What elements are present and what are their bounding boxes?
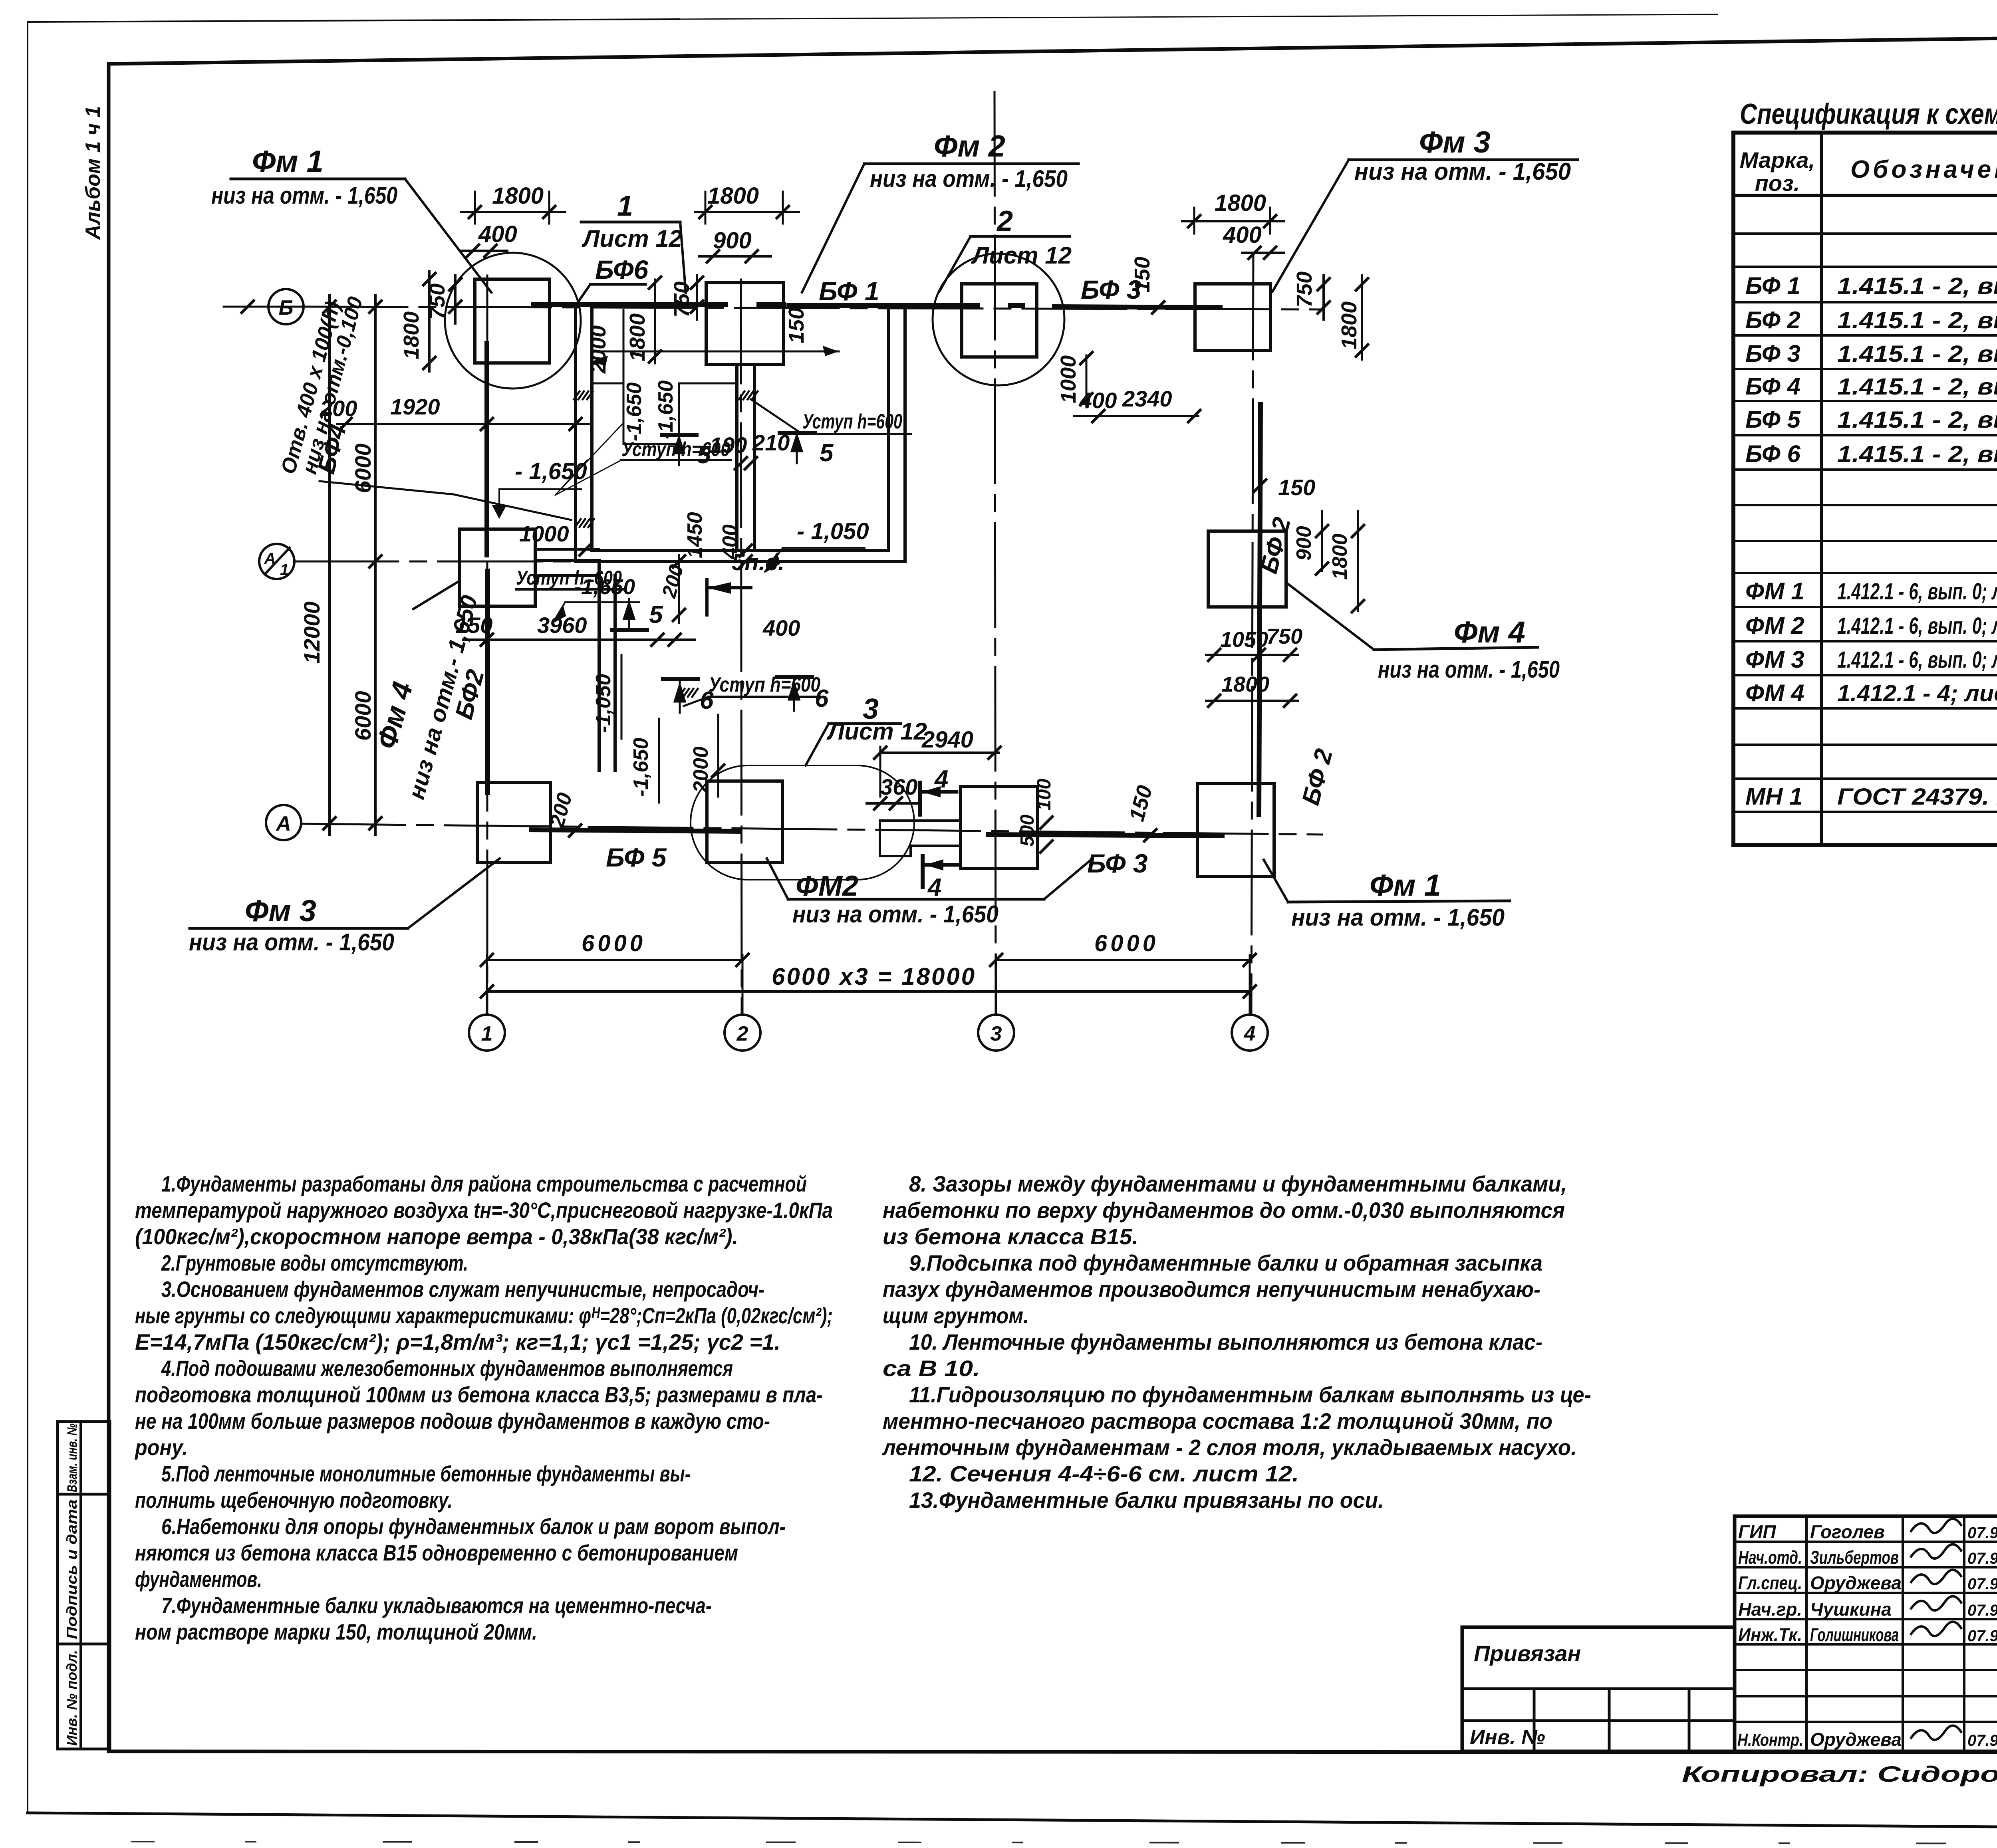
svg-text:900: 900 xyxy=(1292,526,1316,561)
svg-text:07.91: 07.91 xyxy=(1967,1550,1997,1567)
svg-text:низ на отм. - 1,650: низ на отм. - 1,650 xyxy=(1291,904,1505,931)
svg-text:150: 150 xyxy=(784,307,808,343)
svg-text:А: А xyxy=(275,812,291,835)
svg-text:ФМ 3: ФМ 3 xyxy=(1745,646,1804,673)
foundation block ФМ3 at Б/4 xyxy=(1195,284,1270,351)
axis column circle 4 xyxy=(1232,1015,1268,1051)
svg-text:БФ 3: БФ 3 xyxy=(1087,849,1148,878)
ticks on axis Б extension xyxy=(224,306,304,308)
svg-text:1: 1 xyxy=(280,561,289,579)
svg-text:низ на отм. - 1,650: низ на отм. - 1,650 xyxy=(792,901,998,928)
svg-text:температурой наружного воздуха: температурой наружного воздуха tн=-30°С,… xyxy=(135,1198,833,1223)
svg-text:Лист 12: Лист 12 xyxy=(582,225,682,252)
axis row А line xyxy=(301,824,1322,835)
svg-text:2: 2 xyxy=(736,1022,748,1045)
svg-text:поз.: поз. xyxy=(1755,171,1800,196)
svg-text:Уступ h=600: Уступ h=600 xyxy=(709,673,820,696)
svg-text:4: 4 xyxy=(927,874,941,901)
svg-text:подготовка толщиной 100мм из б: подготовка толщиной 100мм из бетона клас… xyxy=(135,1382,823,1407)
svg-text:1.415.1 - 2, вып. 1: 1.415.1 - 2, вып. 1 xyxy=(1837,441,1997,467)
svg-text:150: 150 xyxy=(1130,257,1154,293)
drawing frame left edge xyxy=(107,64,111,1751)
svg-text:Подпись и дата: Подпись и дата xyxy=(64,1499,80,1639)
svg-text:Спецификация к схеме распол: Спецификация к схеме расположения элемен… xyxy=(1740,98,1997,130)
svg-text:1000: 1000 xyxy=(519,521,569,546)
svg-text:1800: 1800 xyxy=(399,311,423,359)
svg-text:11.Гидроизоляцию по фундаментн: 11.Гидроизоляцию по фундаментным балкам … xyxy=(909,1382,1591,1407)
svg-text:1: 1 xyxy=(481,1022,493,1045)
svg-text:Уступ h=600: Уступ h=600 xyxy=(516,567,622,589)
beam БФ6 span Б:1-2 xyxy=(533,302,726,307)
svg-text:Гоголев: Гоголев xyxy=(1810,1521,1885,1542)
svg-text:4: 4 xyxy=(934,765,948,793)
foundation block ФМ3 at А/1 xyxy=(477,783,550,863)
foundation block at А/3 xyxy=(961,787,1038,868)
svg-text:не на 100мм больше размеров по: не на 100мм больше размеров подошв фунда… xyxy=(135,1408,770,1434)
svg-text:Инв. № подл.: Инв. № подл. xyxy=(64,1650,80,1746)
svg-text:1800: 1800 xyxy=(492,183,544,209)
strip foundation outer wall right xyxy=(903,307,907,561)
svg-text:1050: 1050 xyxy=(1220,628,1268,652)
flag 5пс xyxy=(705,580,709,615)
axis column 4 line xyxy=(1251,256,1253,1014)
svg-text:3.Основанием фундаментов служа: 3.Основанием фундаментов служат непучини… xyxy=(161,1277,764,1302)
svg-text:5: 5 xyxy=(820,439,834,467)
svg-text:низ на отм. - 1,650: низ на отм. - 1,650 xyxy=(211,182,397,209)
svg-text:ФМ 1: ФМ 1 xyxy=(1745,578,1804,605)
svg-text:4.Под подошвами железобетонных: 4.Под подошвами железобетонных фундамент… xyxy=(161,1356,733,1381)
svg-text:Гл.спец.: Гл.спец. xyxy=(1738,1572,1802,1593)
svg-text:Инж.Тк.: Инж.Тк. xyxy=(1738,1624,1802,1645)
svg-text:низ на отм. - 1,650: низ на отм. - 1,650 xyxy=(1354,158,1571,185)
svg-text:-1,650: -1,650 xyxy=(654,380,677,439)
svg-text:2.Грунтовые воды отсутствуют.: 2.Грунтовые воды отсутствуют. xyxy=(161,1250,468,1275)
beam БФ5 span А:1-2 xyxy=(531,830,740,831)
section mark 5 left xyxy=(662,433,697,437)
section mark 6 upper xyxy=(663,677,698,681)
foundation block ФМ2 at А/2 xyxy=(707,781,782,863)
svg-text:Н.Контр.: Н.Контр. xyxy=(1737,1730,1803,1750)
svg-text:Инв. №: Инв. № xyxy=(1470,1726,1545,1749)
drawing frame top edge xyxy=(109,31,1997,64)
foundation block ФМ2 at Б/2 xyxy=(706,283,784,365)
svg-text:пазух фундаментов производится: пазух фундаментов производится непучинис… xyxy=(883,1277,1540,1302)
drawing frame bottom edge xyxy=(109,1751,1997,1753)
svg-text:ГОСТ 24379. 1 - 80: ГОСТ 24379. 1 - 80 xyxy=(1837,784,1997,810)
axis column 1 line xyxy=(486,276,488,1014)
svg-text:Фм 3: Фм 3 xyxy=(1419,125,1491,159)
svg-text:2: 2 xyxy=(996,205,1013,237)
svg-text:1.412.1 - 6, вып. 0; лист 13: 1.412.1 - 6, вып. 0; лист 13 xyxy=(1837,613,1997,639)
svg-text:полнить щебеночную подготовку.: полнить щебеночную подготовку. xyxy=(135,1487,453,1513)
svg-text:750: 750 xyxy=(1292,272,1316,307)
hatch mark left step xyxy=(574,391,580,399)
svg-text:6000: 6000 xyxy=(350,691,375,741)
svg-text:БФ 2: БФ 2 xyxy=(1745,307,1800,333)
axis column 3 line xyxy=(995,92,996,1014)
svg-text:Б: Б xyxy=(279,296,294,319)
svg-text:А: А xyxy=(264,550,276,567)
svg-text:9.Подсыпка под фундаментные ба: 9.Подсыпка под фундаментные балки и обра… xyxy=(909,1250,1542,1275)
svg-text:1800: 1800 xyxy=(625,313,649,361)
signature table grid xyxy=(1735,1541,1997,1543)
svg-text:2340: 2340 xyxy=(1122,386,1172,411)
axis row Б line xyxy=(304,307,1322,309)
svg-text:(100кгс/м²),скоростном напоре: (100кгс/м²),скоростном напоре ветра - 0,… xyxy=(135,1224,738,1249)
section mark 5 right xyxy=(780,431,815,435)
scan paper edge left xyxy=(27,22,28,1813)
svg-text:1.Фундаменты разработаны для р: 1.Фундаменты разработаны для района стро… xyxy=(161,1171,807,1196)
svg-text:щим грунтом.: щим грунтом. xyxy=(883,1303,1029,1328)
beam БФ2 vertical at column1 xyxy=(484,343,489,555)
strip foundation middle wall pair xyxy=(735,365,738,551)
foundation block ФМ1 at А/4 xyxy=(1197,783,1274,876)
svg-text:ные грунты со следующими харак: ные грунты со следующими характеристикам… xyxy=(135,1303,833,1328)
strip foundation inner wall left xyxy=(590,310,594,551)
svg-text:1800: 1800 xyxy=(707,183,759,209)
svg-text:БФ 1: БФ 1 xyxy=(819,276,879,306)
svg-text:400: 400 xyxy=(478,221,517,247)
svg-text:1000: 1000 xyxy=(1056,355,1080,403)
svg-text:1.415.1 - 2, вып. 1: 1.415.1 - 2, вып. 1 xyxy=(1837,407,1997,433)
svg-text:низ на отм. - 1,650: низ на отм. - 1,650 xyxy=(1378,656,1560,683)
svg-text:ленточным фундаментам - 2 слоя: ленточным фундаментам - 2 слоя толя, укл… xyxy=(881,1435,1577,1460)
axis column circle 1 xyxy=(469,1015,505,1051)
svg-text:-1,650: -1,650 xyxy=(623,382,646,441)
svg-text:ном растворе марки 150, толщин: ном растворе марки 150, толщиной 20мм. xyxy=(135,1619,537,1644)
svg-text:БФ 1: БФ 1 xyxy=(1745,272,1800,299)
detail circle at Б/1 xyxy=(445,253,581,389)
svg-text:Альбом 1 ч 1: Альбом 1 ч 1 xyxy=(81,106,105,240)
svg-text:ГИП: ГИП xyxy=(1738,1521,1776,1542)
detail circle at Б/3 xyxy=(933,254,1064,385)
svg-text:2000: 2000 xyxy=(689,746,713,793)
strip foundation inner wall right xyxy=(887,307,890,551)
svg-text:360: 360 xyxy=(880,774,917,799)
beam stub in block Б/2 xyxy=(759,302,784,307)
axis column circle 2 xyxy=(725,1015,760,1051)
svg-text:500: 500 xyxy=(1017,815,1038,847)
svg-text:5: 5 xyxy=(697,441,711,469)
svg-text:БФ 3: БФ 3 xyxy=(1745,340,1800,367)
dim 2000 arrow right chamber xyxy=(592,351,839,353)
svg-text:Взам. инв. №: Взам. инв. № xyxy=(65,1424,80,1492)
svg-text:Уступ h=600: Уступ h=600 xyxy=(802,410,902,433)
svg-text:5.Под ленточные монолитные бет: 5.Под ленточные монолитные бетонные фунд… xyxy=(161,1461,691,1486)
svg-text:Фм 3: Фм 3 xyxy=(245,894,316,928)
svg-text:5п.с.: 5п.с. xyxy=(732,549,784,575)
foundation block ФМ1 at Б/1 xyxy=(475,279,550,363)
foundation block ФМ4 at А1/1 xyxy=(459,529,535,606)
svg-text:6000 х3 = 18000: 6000 х3 = 18000 xyxy=(772,963,976,990)
svg-text:150: 150 xyxy=(1278,475,1315,500)
strip foundation outer wall left xyxy=(574,310,577,561)
spec table grid xyxy=(1733,133,1997,845)
vertical extension lines to circles xyxy=(486,955,488,1015)
svg-text:Фм 1: Фм 1 xyxy=(1370,868,1441,902)
svg-text:1450: 1450 xyxy=(683,512,707,558)
hatch mark near wing xyxy=(679,689,685,697)
svg-text:-1,650: -1,650 xyxy=(629,738,653,797)
svg-text:10. Ленточные фундаменты выпол: 10. Ленточные фундаменты выполняются из … xyxy=(909,1329,1542,1354)
svg-text:8. Зазоры между фундаментами: 8. Зазоры между фундаментами и фундамент… xyxy=(909,1171,1567,1196)
foundation block at Б/3 xyxy=(962,284,1037,357)
svg-text:-1,050: -1,050 xyxy=(592,674,615,733)
svg-text:1.415.1 - 2, вып. 1: 1.415.1 - 2, вып. 1 xyxy=(1837,374,1997,400)
svg-text:1: 1 xyxy=(617,190,633,222)
svg-text:1800: 1800 xyxy=(1215,190,1266,216)
svg-text:няются из бетона класса В15 од: няются из бетона класса В15 одновременно… xyxy=(135,1540,738,1565)
svg-text:1.412.1 - 4; лист 14: 1.412.1 - 4; лист 14 xyxy=(1837,680,1997,706)
dim arrow 2000 left xyxy=(592,356,608,366)
svg-text:Чушкина: Чушкина xyxy=(1810,1599,1892,1620)
section mark 6 right xyxy=(777,675,812,679)
svg-text:Фм 4: Фм 4 xyxy=(1454,615,1525,649)
svg-text:БФ 4: БФ 4 xyxy=(1745,373,1800,400)
svg-text:07.91: 07.91 xyxy=(1967,1732,1997,1749)
svg-text:Привязан: Привязан xyxy=(1474,1641,1581,1666)
beam БФ3 span Б:3-4 xyxy=(1054,307,1220,307)
svg-text:низ на отм. - 1,650: низ на отм. - 1,650 xyxy=(870,165,1068,192)
notched monolithic block xyxy=(880,821,961,856)
hatch mark right step xyxy=(739,391,744,399)
svg-text:12. Сечения 4-4÷6-6 см. лист 1: 12. Сечения 4-4÷6-6 см. лист 12. xyxy=(909,1461,1299,1486)
beam БФ2 vertical at column4 xyxy=(1259,404,1261,815)
section mark 4 upper xyxy=(918,783,922,815)
svg-text:- 1,050: - 1,050 xyxy=(797,518,869,544)
svg-text:400: 400 xyxy=(1079,388,1117,413)
svg-text:Оруджева: Оруджева xyxy=(1810,1729,1902,1750)
axis row Б circle xyxy=(268,289,304,324)
pit step contour left chamber xyxy=(592,310,737,444)
svg-text:МН 1: МН 1 xyxy=(1745,783,1802,810)
svg-text:из бетона класса В15.: из бетона класса В15. xyxy=(883,1224,1138,1249)
svg-text:1.412.1 - 6, вып. 0; лист 13: 1.412.1 - 6, вып. 0; лист 13 xyxy=(1837,579,1997,605)
svg-text:фундаментов.: фундаментов. xyxy=(135,1566,262,1592)
svg-text:Копировал: Сидорова: Копировал: Сидорова xyxy=(1682,1761,1997,1787)
svg-text:6000: 6000 xyxy=(582,930,646,956)
leader to hatch xyxy=(320,481,453,494)
svg-text:100: 100 xyxy=(1034,779,1055,811)
svg-text:1800: 1800 xyxy=(1328,533,1352,580)
svg-text:12000: 12000 xyxy=(299,601,324,664)
section flag 5 lower xyxy=(612,628,647,632)
oval detail boundary ФМ2 xyxy=(691,765,914,880)
svg-text:Нач.отд.: Нач.отд. xyxy=(1738,1547,1802,1568)
left margin column boxes xyxy=(58,1422,110,1749)
svg-text:Нач.гр.: Нач.гр. xyxy=(1738,1599,1802,1620)
svg-text:400: 400 xyxy=(762,615,800,640)
scan paper edge top xyxy=(28,19,679,22)
svg-text:Голишникова: Голишникова xyxy=(1810,1624,1899,1645)
svg-text:1.415.1 - 2, вып. 1: 1.415.1 - 2, вып. 1 xyxy=(1837,273,1997,299)
axis column circle 3 xyxy=(978,1015,1014,1051)
svg-text:БФ 5: БФ 5 xyxy=(606,843,667,872)
section mark 4 lower xyxy=(921,856,925,887)
svg-text:1800: 1800 xyxy=(1337,301,1361,349)
svg-text:БФ 5: БФ 5 xyxy=(1745,406,1801,433)
svg-text:1.415.1 - 2, вып. 1: 1.415.1 - 2, вып. 1 xyxy=(1837,307,1997,333)
svg-text:Марка,: Марка, xyxy=(1740,147,1815,173)
svg-text:07.91: 07.91 xyxy=(1967,1575,1997,1593)
svg-text:4: 4 xyxy=(1244,1022,1256,1045)
svg-text:набетонки по верху фундаментов: набетонки по верху фундаментов до отм.-0… xyxy=(883,1198,1565,1223)
svg-text:Зильбертов: Зильбертов xyxy=(1810,1547,1899,1568)
title block outline xyxy=(1735,1516,1997,1751)
beam stub in block Б/3 xyxy=(1010,303,1022,308)
svg-text:3: 3 xyxy=(991,1022,1002,1045)
beam БФ2 vertical lower at column1 xyxy=(485,571,490,793)
axis row А/1 line xyxy=(294,561,617,563)
svg-text:БФ 6: БФ 6 xyxy=(1745,440,1800,467)
svg-text:1800: 1800 xyxy=(1221,672,1269,696)
strip wing below block А1/1 xyxy=(535,559,599,562)
svg-text:рону.: рону. xyxy=(134,1435,188,1460)
svg-text:13.Фундаментные балки привязан: 13.Фундаментные балки привязаны по оси. xyxy=(909,1487,1384,1513)
svg-text:6000: 6000 xyxy=(1094,930,1159,956)
svg-text:Лист 12: Лист 12 xyxy=(971,242,1072,269)
svg-text:07.91: 07.91 xyxy=(1967,1524,1997,1542)
svg-text:400: 400 xyxy=(1223,222,1262,248)
svg-text:ФМ2: ФМ2 xyxy=(796,870,858,902)
strip foundation bottom inner xyxy=(592,549,889,552)
axis row А circle xyxy=(266,805,301,840)
foundation block ФМ4 at А1/4 xyxy=(1208,531,1286,607)
svg-text:Обозначение: Обозначение xyxy=(1850,156,1997,183)
svg-text:6.Набетонки для опоры фундамен: 6.Набетонки для опоры фундаментных балок… xyxy=(161,1514,786,1539)
axis column 2 line xyxy=(741,280,742,1014)
svg-text:БФ6: БФ6 xyxy=(595,255,649,284)
svg-text:ФМ 4: ФМ 4 xyxy=(1745,680,1804,706)
svg-text:5: 5 xyxy=(649,601,663,629)
svg-text:1.415.1 - 2, вып. 1: 1.415.1 - 2, вып. 1 xyxy=(1837,341,1997,367)
svg-text:1920: 1920 xyxy=(390,394,440,419)
beam БФ3 span А:3-4 xyxy=(989,835,1222,836)
svg-text:750: 750 xyxy=(1266,625,1302,648)
svg-text:Лист 12: Лист 12 xyxy=(826,718,927,745)
hatch mark bottom left xyxy=(575,519,581,527)
svg-text:Фм 1: Фм 1 xyxy=(252,145,324,178)
axis row А/1 circle xyxy=(259,544,294,579)
scan paper edge bottom xyxy=(28,1813,1997,1831)
svg-text:07.91: 07.91 xyxy=(1967,1602,1997,1619)
strip foundation bottom outer xyxy=(576,560,905,563)
svg-text:2940: 2940 xyxy=(921,727,973,753)
stamp attachment table left xyxy=(1462,1627,1735,1751)
svg-text:ментно-песчаного раствора сост: ментно-песчаного раствора состава 1:2 то… xyxy=(883,1408,1552,1434)
strip vertical pair to oval xyxy=(598,561,601,771)
beam БФ1 span Б:2-3 xyxy=(789,303,978,308)
svg-text:Фм 2: Фм 2 xyxy=(934,129,1005,163)
scan bottom dashes xyxy=(132,1842,1997,1844)
svg-text:са В 10.: са В 10. xyxy=(883,1356,980,1381)
svg-text:низ на отм. - 1,650: низ на отм. - 1,650 xyxy=(189,929,394,956)
svg-text:ФМ 2: ФМ 2 xyxy=(1745,612,1804,639)
svg-text:Е=14,7мПа (150кгс/см²); ρ=1,8т: Е=14,7мПа (150кгс/см²); ρ=1,8т/м³; кг=1,… xyxy=(135,1329,780,1354)
svg-text:1.412.1 - 6, вып. 0; лист 13: 1.412.1 - 6, вып. 0; лист 13 xyxy=(1837,647,1997,673)
svg-text:Оруджева: Оруджева xyxy=(1810,1572,1902,1593)
svg-text:190: 190 xyxy=(710,432,747,458)
svg-text:2000: 2000 xyxy=(586,325,610,374)
svg-text:07.91: 07.91 xyxy=(1967,1627,1997,1645)
svg-text:150: 150 xyxy=(455,613,492,638)
svg-text:7.Фундаментные балки укладываю: 7.Фундаментные балки укладываются на цем… xyxy=(161,1593,712,1618)
